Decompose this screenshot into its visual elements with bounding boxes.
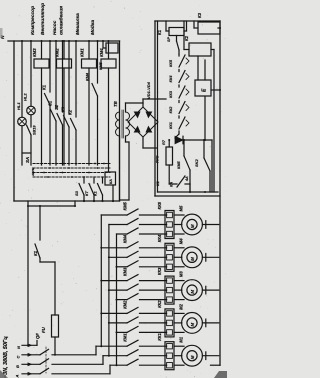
svg-text:КМ5: КМ5 <box>99 62 103 70</box>
svg-text:КК3: КК3 <box>157 267 162 275</box>
svg-text:КК3: КК3 <box>168 90 173 98</box>
svg-text:М: М <box>190 323 195 327</box>
svg-text:КК1: КК1 <box>168 122 173 129</box>
svg-text:FU: FU <box>41 326 46 333</box>
svg-text:ТВ: ТВ <box>113 100 118 107</box>
svg-text:КМ4: КМ4 <box>85 72 90 81</box>
svg-text:КМ4: КМ4 <box>123 234 128 243</box>
svg-text:М5: М5 <box>179 205 184 211</box>
svg-text:S3: S3 <box>74 190 79 196</box>
svg-text:КК4: КК4 <box>168 75 173 83</box>
svg-text:КТ: КТ <box>84 190 89 196</box>
svg-text:КМ2: КМ2 <box>123 300 128 309</box>
svg-text:Мойка: Мойка <box>89 20 96 35</box>
svg-text:SA: SA <box>25 157 30 163</box>
svg-text:КМ5: КМ5 <box>177 161 181 169</box>
svg-text:КМ4: КМ4 <box>99 48 104 57</box>
svg-text:Вентилятор: Вентилятор <box>40 3 46 35</box>
svg-text:К1: К1 <box>93 191 98 196</box>
svg-text:КМ3: КМ3 <box>32 48 37 57</box>
svg-text:S1: S1 <box>48 100 53 106</box>
svg-text:КК2: КК2 <box>168 106 173 114</box>
svg-text:В: В <box>15 365 20 368</box>
svg-text:К2: К2 <box>184 35 189 41</box>
svg-text:N: N <box>16 346 21 349</box>
svg-text:М3: М3 <box>179 271 184 277</box>
svg-text:КК5: КК5 <box>157 201 162 209</box>
svg-text:К3: К3 <box>197 12 202 18</box>
svg-text:КК1: КК1 <box>157 333 162 341</box>
svg-text:А: А <box>15 375 20 378</box>
svg-text:КМ2: КМ2 <box>55 48 60 57</box>
svg-text:КК5: КК5 <box>168 59 173 67</box>
svg-text:S2: S2 <box>54 104 59 110</box>
svg-text:М: М <box>190 290 195 294</box>
svg-text:С: С <box>16 356 21 359</box>
svg-text:охлаждения: охлаждения <box>59 6 65 35</box>
svg-text:К1: К1 <box>42 84 47 90</box>
svg-text:4А: 4А <box>185 176 189 182</box>
svg-text:КА: КА <box>109 179 113 184</box>
svg-text:К1: К1 <box>157 29 162 35</box>
svg-text:М: М <box>190 355 195 359</box>
svg-text:КМ1: КМ1 <box>80 48 85 57</box>
svg-text:Компрессор: Компрессор <box>30 6 36 35</box>
svg-text:М: М <box>190 224 195 228</box>
svg-text:КМ3: КМ3 <box>123 267 128 276</box>
svg-text:HL2: HL2 <box>23 93 28 101</box>
svg-text:КМ1: КМ1 <box>123 333 128 342</box>
svg-text:КК2: КК2 <box>157 300 162 308</box>
svg-text:Мешалка: Мешалка <box>75 13 81 35</box>
svg-text:М4: М4 <box>179 238 184 244</box>
svg-text:РУС: РУС <box>156 155 160 163</box>
svg-text:HL1: HL1 <box>16 102 21 110</box>
svg-text:~3N, 380В, 50Гц: ~3N, 380В, 50Гц <box>3 336 9 378</box>
svg-text:КА: КА <box>170 182 174 187</box>
svg-text:Насос: Насос <box>52 20 58 35</box>
svg-text:SP: SP <box>167 36 171 42</box>
svg-text:QF: QF <box>35 333 40 339</box>
svg-text:М1: М1 <box>179 336 184 342</box>
svg-text:К3: К3 <box>61 106 66 112</box>
svg-text:КМ5: КМ5 <box>123 201 128 210</box>
svg-text:VD1-VD4: VD1-VD4 <box>146 81 151 99</box>
svg-text:SB19: SB19 <box>33 125 37 135</box>
svg-text:КК4: КК4 <box>157 234 162 242</box>
svg-text:SK2: SK2 <box>194 158 199 167</box>
svg-text:АВРМ: АВРМ <box>31 167 35 177</box>
svg-text:М: М <box>190 257 195 261</box>
svg-text:К1: К1 <box>33 250 38 256</box>
svg-text:К1: К1 <box>155 181 160 186</box>
svg-text:К2: К2 <box>68 109 73 115</box>
